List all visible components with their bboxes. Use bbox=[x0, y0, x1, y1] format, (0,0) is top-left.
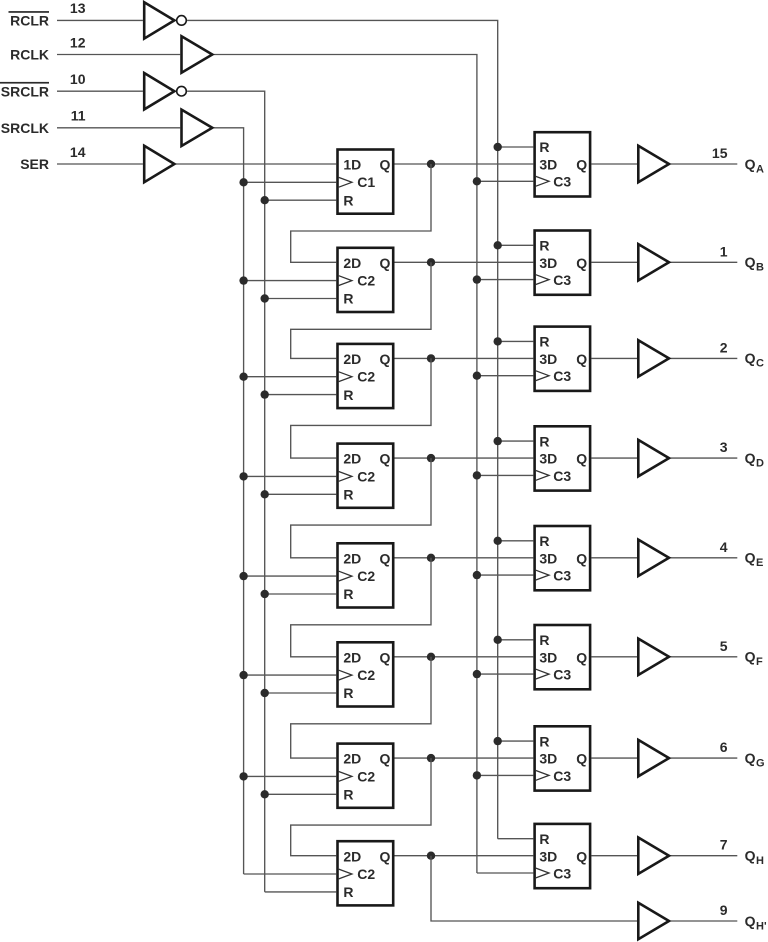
input label SER bbox=[20, 156, 49, 172]
wire output buffer to QA pin bbox=[671, 163, 738, 165]
junction dot register-clock bus / L6 bbox=[473, 670, 481, 678]
junction dot register-clear bus / L3 bbox=[494, 337, 502, 345]
latch L5 (R 3D C3) bbox=[535, 526, 591, 590]
svg-text:R: R bbox=[539, 831, 549, 847]
input label RCLR bbox=[9, 11, 50, 29]
svg-text:Q: Q bbox=[745, 848, 756, 864]
wire FF5 Q to FF6 2D input bbox=[291, 558, 431, 657]
svg-text:E: E bbox=[756, 557, 763, 569]
output buffer QH bbox=[638, 838, 669, 874]
junction dot shift-clock bus / FF4 bbox=[239, 472, 247, 480]
wire latch L4 Q to output buffer bbox=[591, 457, 637, 459]
node QE output label bbox=[745, 550, 764, 570]
wire FF7 Q to latch L7 3D bbox=[395, 757, 534, 759]
junction dot FF8 Q node bbox=[427, 852, 435, 860]
junction dot shift-clear bus / FF3 bbox=[261, 390, 269, 398]
junction dot register-clock bus / L1 bbox=[473, 177, 481, 185]
svg-text:R: R bbox=[343, 291, 353, 307]
svg-text:Q: Q bbox=[576, 255, 587, 271]
wire shift-clear bus to FF5 R bbox=[265, 593, 337, 595]
wire shift-clear bus to FF1 R bbox=[265, 199, 337, 201]
wire register-clear bus to latch L4 R bbox=[498, 440, 534, 442]
svg-text:3D: 3D bbox=[539, 550, 557, 566]
flip-flop FF7 (2D C2 R) bbox=[338, 744, 394, 808]
junction dot shift-clock bus / FF3 bbox=[239, 373, 247, 381]
svg-text:2D: 2D bbox=[343, 255, 361, 271]
svg-text:Q: Q bbox=[576, 157, 587, 173]
wire FF2 Q to FF3 2D input bbox=[291, 262, 431, 358]
svg-text:SRCLR: SRCLR bbox=[1, 83, 49, 99]
junction dot register-clear bus / L4 bbox=[494, 437, 502, 445]
svg-text:3D: 3D bbox=[539, 351, 557, 367]
wire shift-clock bus to FF4 C2 bbox=[244, 475, 337, 477]
wire shift-clock bus to FF6 C2 bbox=[244, 674, 337, 676]
wire shift-clear bus to FF6 R bbox=[265, 692, 337, 694]
svg-text:Q: Q bbox=[380, 157, 391, 173]
wire SRCLK buffer to shift-clock bus bbox=[214, 128, 244, 874]
svg-text:9: 9 bbox=[720, 902, 728, 918]
wire FF4 Q to latch L4 3D bbox=[395, 457, 534, 459]
wire output buffer to QD pin bbox=[671, 457, 738, 459]
node QG output label bbox=[745, 750, 765, 770]
junction dot FF1 Q node bbox=[427, 160, 435, 168]
junction dot register-clear bus / L1 bbox=[494, 143, 502, 151]
svg-text:Q: Q bbox=[380, 751, 391, 767]
latch L7 (R 3D C3) bbox=[535, 726, 591, 790]
svg-text:Q: Q bbox=[745, 750, 756, 766]
wire shift-clock bus to FF2 C2 bbox=[244, 280, 337, 282]
svg-text:R: R bbox=[343, 192, 353, 208]
svg-text:R: R bbox=[539, 139, 549, 155]
svg-text:R: R bbox=[343, 884, 353, 900]
latch L3 (R 3D C3) bbox=[535, 327, 591, 391]
wire latch L6 Q to output buffer bbox=[591, 656, 637, 658]
wire output buffer to QC pin bbox=[671, 357, 738, 359]
wire output buffer to QF pin bbox=[671, 656, 738, 658]
svg-text:SRCLK: SRCLK bbox=[1, 120, 49, 136]
svg-text:14: 14 bbox=[70, 144, 86, 160]
svg-text:C3: C3 bbox=[553, 174, 571, 190]
svg-text:R: R bbox=[539, 238, 549, 254]
svg-text:F: F bbox=[756, 656, 763, 668]
svg-text:Q: Q bbox=[380, 649, 391, 665]
output buffer QB bbox=[638, 244, 669, 280]
svg-text:Q: Q bbox=[576, 848, 587, 864]
svg-text:10: 10 bbox=[70, 71, 86, 87]
svg-text:5: 5 bbox=[720, 638, 728, 654]
buffer U4 (SRCLK input) bbox=[182, 110, 213, 146]
svg-text:3: 3 bbox=[720, 439, 728, 455]
output buffer QC bbox=[638, 340, 669, 376]
svg-text:C3: C3 bbox=[553, 272, 571, 288]
wire shift-clock bus to FF5 C2 bbox=[244, 575, 337, 577]
svg-text:Q: Q bbox=[380, 451, 391, 467]
svg-text:C: C bbox=[756, 358, 764, 370]
flip-flop FF8 (2D C2 R) bbox=[338, 841, 394, 905]
node QH' output label bbox=[745, 913, 767, 933]
wire FF3 Q to FF4 2D input bbox=[291, 358, 431, 458]
svg-text:R: R bbox=[539, 334, 549, 350]
wire SER buffer to FF1 1D input bbox=[176, 163, 336, 165]
svg-text:1: 1 bbox=[720, 243, 728, 259]
junction dot FF3 Q node bbox=[427, 354, 435, 362]
svg-text:R: R bbox=[343, 487, 353, 503]
buffer U5 (SER input) bbox=[144, 146, 174, 182]
svg-text:R: R bbox=[343, 685, 353, 701]
svg-text:6: 6 bbox=[720, 739, 728, 755]
svg-text:C3: C3 bbox=[553, 667, 571, 683]
svg-text:Q: Q bbox=[745, 649, 756, 665]
svg-text:15: 15 bbox=[712, 145, 728, 161]
wire FF6 Q to FF7 2D input bbox=[291, 657, 431, 758]
svg-text:2D: 2D bbox=[343, 649, 361, 665]
pin 2 label bbox=[720, 339, 728, 355]
svg-text:13: 13 bbox=[70, 0, 86, 16]
wire register-clock bus to latch L4 C3 bbox=[477, 474, 533, 476]
svg-text:R: R bbox=[539, 433, 549, 449]
svg-text:C2: C2 bbox=[357, 768, 375, 784]
wire SRCLK input bbox=[57, 127, 180, 129]
input label RCLK bbox=[10, 47, 49, 63]
latch L8 (R 3D C3) bbox=[535, 824, 591, 888]
flip-flop FF3 (2D C2 R) bbox=[338, 344, 394, 408]
svg-text:R: R bbox=[343, 387, 353, 403]
pin 12 label bbox=[70, 34, 86, 50]
svg-text:C1: C1 bbox=[357, 174, 375, 190]
svg-text:2: 2 bbox=[720, 339, 728, 355]
svg-text:C2: C2 bbox=[357, 273, 375, 289]
svg-text:Q: Q bbox=[576, 751, 587, 767]
svg-text:3D: 3D bbox=[539, 451, 557, 467]
flip-flop FF1 (1D C1 R) bbox=[338, 150, 394, 214]
wire FF8 Q to latch L8 3D bbox=[395, 855, 534, 857]
svg-text:3D: 3D bbox=[539, 848, 557, 864]
svg-text:2D: 2D bbox=[343, 550, 361, 566]
wire register-clock bus to latch L2 C3 bbox=[477, 279, 533, 281]
wire shift-clock bus to FF7 C2 bbox=[244, 775, 337, 777]
svg-text:Q: Q bbox=[380, 255, 391, 271]
svg-text:Q: Q bbox=[745, 450, 756, 466]
flip-flop FF6 (2D C2 R) bbox=[338, 642, 394, 706]
wire register-clock bus to latch L5 C3 bbox=[477, 574, 533, 576]
svg-text:H: H bbox=[756, 855, 764, 867]
junction dot register-clock bus / L2 bbox=[473, 275, 481, 283]
buffer U1 (RCLR input inverter) bbox=[144, 2, 174, 38]
svg-text:SER: SER bbox=[20, 156, 49, 172]
wire register-clock bus to latch L6 C3 bbox=[477, 673, 533, 675]
wire FF4 Q to FF5 2D input bbox=[291, 458, 431, 558]
svg-text:Q: Q bbox=[576, 351, 587, 367]
junction dot register-clear bus / L7 bbox=[494, 737, 502, 745]
output buffer QG bbox=[638, 740, 669, 776]
junction dot register-clock bus / L7 bbox=[473, 771, 481, 779]
output buffer QH' bbox=[638, 903, 669, 939]
wire latch L2 Q to output buffer bbox=[591, 261, 637, 263]
wire latch L3 Q to output buffer bbox=[591, 357, 637, 359]
pin 6 label bbox=[720, 739, 728, 755]
svg-text:7: 7 bbox=[720, 837, 728, 853]
buffer U2 (RCLK input) bbox=[182, 36, 213, 72]
wire FF7 Q to FF8 2D input bbox=[291, 758, 431, 856]
svg-text:C2: C2 bbox=[357, 568, 375, 584]
wire FF3 Q to latch L3 3D bbox=[395, 357, 534, 359]
svg-text:C2: C2 bbox=[357, 369, 375, 385]
wire shift-clock bus to FF3 C2 bbox=[244, 376, 337, 378]
junction dot shift-clear bus / FF1 bbox=[261, 196, 269, 204]
svg-text:G: G bbox=[756, 757, 765, 769]
wire FF1 Q to FF2 2D input bbox=[291, 164, 431, 262]
latch L4 (R 3D C3) bbox=[535, 426, 591, 490]
svg-text:3D: 3D bbox=[539, 751, 557, 767]
pin 4 label bbox=[720, 539, 728, 555]
svg-text:B: B bbox=[756, 262, 764, 274]
node QC output label bbox=[745, 350, 764, 370]
pin 11 label bbox=[71, 108, 86, 124]
svg-text:D: D bbox=[756, 457, 764, 469]
wire RCLK buffer to register-clock bus bbox=[214, 55, 477, 874]
output buffer QF bbox=[638, 639, 669, 675]
wire QH' buffer to pin 9 bbox=[671, 920, 738, 922]
wire FF1 Q to latch L1 3D bbox=[395, 163, 534, 165]
svg-text:C3: C3 bbox=[553, 468, 571, 484]
junction dot shift-clock bus / FF5 bbox=[239, 572, 247, 580]
wire FF5 Q to latch L5 3D bbox=[395, 557, 534, 559]
buffer U3 (SRCLR input inverter) bbox=[144, 73, 174, 109]
wire latch L5 Q to output buffer bbox=[591, 557, 637, 559]
output buffer QD bbox=[638, 440, 669, 476]
wire shift-clear bus to FF8 R bbox=[265, 891, 337, 893]
wire register-clear bus to latch L5 R bbox=[498, 540, 534, 542]
flip-flop FF4 (2D C2 R) bbox=[338, 444, 394, 508]
wire shift-clear bus to FF4 R bbox=[265, 493, 337, 495]
output buffer QE bbox=[638, 540, 669, 576]
flip-flop FF2 (2D C2 R) bbox=[338, 248, 394, 312]
pin 9 label bbox=[720, 902, 728, 918]
svg-text:Q: Q bbox=[380, 351, 391, 367]
svg-text:A: A bbox=[756, 163, 764, 175]
svg-text:Q: Q bbox=[576, 451, 587, 467]
output buffer QA bbox=[638, 146, 669, 182]
latch L1 (R 3D C3) bbox=[535, 132, 591, 196]
wire FF2 Q to latch L2 3D bbox=[395, 261, 534, 263]
node QA output label bbox=[745, 156, 764, 176]
wire RCLK input bbox=[57, 54, 180, 56]
junction dot shift-clear bus / FF2 bbox=[261, 294, 269, 302]
wire register-clock bus to latch L1 C3 bbox=[477, 180, 533, 182]
junction dot FF5 Q node bbox=[427, 554, 435, 562]
svg-text:2D: 2D bbox=[343, 848, 361, 864]
pin 15 label bbox=[712, 145, 728, 161]
svg-text:12: 12 bbox=[70, 34, 86, 50]
junction dot shift-clock bus / FF6 bbox=[239, 671, 247, 679]
wire shift-clock bus to FF8 C2 bbox=[244, 873, 337, 875]
svg-text:RCLR: RCLR bbox=[10, 13, 49, 29]
junction dot shift-clock bus / FF1 bbox=[239, 178, 247, 186]
wire register-clear bus to latch L3 R bbox=[498, 340, 534, 342]
svg-text:R: R bbox=[539, 733, 549, 749]
svg-text:R: R bbox=[343, 787, 353, 803]
svg-text:R: R bbox=[539, 533, 549, 549]
junction dot register-clear bus / L2 bbox=[494, 241, 502, 249]
svg-text:Q: Q bbox=[576, 550, 587, 566]
junction dot FF6 Q node bbox=[427, 653, 435, 661]
junction dot register-clear bus / L5 bbox=[494, 537, 502, 545]
wire register-clear bus to latch L1 R bbox=[498, 146, 534, 148]
input label SRCLK bbox=[1, 120, 49, 136]
svg-text:Q: Q bbox=[745, 254, 756, 270]
svg-text:Q: Q bbox=[380, 848, 391, 864]
svg-text:R: R bbox=[539, 632, 549, 648]
input label SRCLR bbox=[0, 82, 49, 100]
svg-text:C3: C3 bbox=[553, 568, 571, 584]
junction dot shift-clear bus / FF5 bbox=[261, 590, 269, 598]
junction dot register-clock bus / L3 bbox=[473, 372, 481, 380]
svg-text:Q: Q bbox=[745, 156, 756, 172]
junction dot register-clear bus / L6 bbox=[494, 636, 502, 644]
wire SER input bbox=[57, 163, 143, 165]
wire FF6 Q to latch L6 3D bbox=[395, 656, 534, 658]
junction dot shift-clock bus / FF7 bbox=[239, 772, 247, 780]
wire register-clock bus to latch L8 C3 bbox=[477, 872, 533, 874]
wire output buffer to QH pin bbox=[671, 855, 738, 857]
wire latch L1 Q to output buffer bbox=[591, 163, 637, 165]
wire register-clear bus to latch L8 R bbox=[498, 838, 534, 840]
svg-text:11: 11 bbox=[71, 108, 86, 124]
wire output buffer to QE pin bbox=[671, 557, 738, 559]
inverter bubble U3 bbox=[177, 86, 187, 96]
node QB output label bbox=[745, 254, 764, 274]
pin 10 label bbox=[70, 71, 86, 87]
junction dot shift-clear bus / FF7 bbox=[261, 790, 269, 798]
svg-text:R: R bbox=[343, 586, 353, 602]
junction dot FF2 Q node bbox=[427, 258, 435, 266]
wire FF8 Q to QH' buffer bbox=[431, 856, 637, 921]
wire SRCLR input bbox=[57, 90, 143, 92]
wire shift-clear bus to FF3 R bbox=[265, 394, 337, 396]
svg-text:3D: 3D bbox=[539, 649, 557, 665]
svg-text:Q: Q bbox=[745, 550, 756, 566]
junction dot shift-clear bus / FF4 bbox=[261, 490, 269, 498]
latch L6 (R 3D C3) bbox=[535, 625, 591, 689]
wire output buffer to QB pin bbox=[671, 261, 738, 263]
svg-text:C3: C3 bbox=[553, 865, 571, 881]
wire shift-clear bus to FF2 R bbox=[265, 298, 337, 300]
wire register-clock bus to latch L7 C3 bbox=[477, 774, 533, 776]
wire register-clear bus to latch L7 R bbox=[498, 740, 534, 742]
wire SRCLR buffer to shift-clear bus bbox=[187, 91, 265, 892]
svg-text:3D: 3D bbox=[539, 157, 557, 173]
wire shift-clear bus to FF7 R bbox=[265, 793, 337, 795]
svg-text:4: 4 bbox=[720, 539, 728, 555]
svg-text:C2: C2 bbox=[357, 667, 375, 683]
node QF output label bbox=[745, 649, 763, 669]
svg-text:C3: C3 bbox=[553, 768, 571, 784]
wire shift-clock bus to FF1 C1 bbox=[244, 181, 337, 183]
junction dot FF7 Q node bbox=[427, 754, 435, 762]
junction dot shift-clock bus / FF2 bbox=[239, 276, 247, 284]
svg-text:2D: 2D bbox=[343, 351, 361, 367]
pin 14 label bbox=[70, 144, 86, 160]
pin 1 label bbox=[720, 243, 728, 259]
svg-text:2D: 2D bbox=[343, 751, 361, 767]
latch L2 (R 3D C3) bbox=[535, 231, 591, 295]
svg-text:C3: C3 bbox=[553, 368, 571, 384]
svg-text:3D: 3D bbox=[539, 255, 557, 271]
svg-text:C2: C2 bbox=[357, 866, 375, 882]
wire RCLR input bbox=[57, 19, 143, 21]
svg-text:C2: C2 bbox=[357, 468, 375, 484]
svg-text:Q: Q bbox=[745, 913, 756, 929]
node QD output label bbox=[745, 450, 764, 470]
junction dot register-clock bus / L5 bbox=[473, 571, 481, 579]
inverter bubble U1 bbox=[177, 16, 187, 26]
pin 5 label bbox=[720, 638, 728, 654]
wire latch L7 Q to output buffer bbox=[591, 757, 637, 759]
pin 7 label bbox=[720, 837, 728, 853]
svg-text:1D: 1D bbox=[343, 157, 361, 173]
flip-flop FF5 (2D C2 R) bbox=[338, 543, 394, 607]
junction dot FF4 Q node bbox=[427, 454, 435, 462]
pin 3 label bbox=[720, 439, 728, 455]
svg-text:Q: Q bbox=[380, 550, 391, 566]
svg-text:RCLK: RCLK bbox=[10, 47, 49, 63]
svg-text:2D: 2D bbox=[343, 451, 361, 467]
wire latch L8 Q to output buffer bbox=[591, 855, 637, 857]
wire output buffer to QG pin bbox=[671, 757, 738, 759]
svg-text:H': H' bbox=[756, 920, 767, 932]
junction dot shift-clear bus / FF6 bbox=[261, 689, 269, 697]
wire register-clock bus to latch L3 C3 bbox=[477, 375, 533, 377]
wire register-clear bus to latch L6 R bbox=[498, 639, 534, 641]
junction dot register-clock bus / L4 bbox=[473, 471, 481, 479]
svg-text:Q: Q bbox=[576, 649, 587, 665]
wire RCLR buffer to register-clear bus bbox=[187, 20, 498, 838]
wire register-clear bus to latch L2 R bbox=[498, 244, 534, 246]
pin 13 label bbox=[70, 0, 86, 16]
svg-text:Q: Q bbox=[745, 350, 756, 366]
node QH output label bbox=[745, 848, 764, 868]
